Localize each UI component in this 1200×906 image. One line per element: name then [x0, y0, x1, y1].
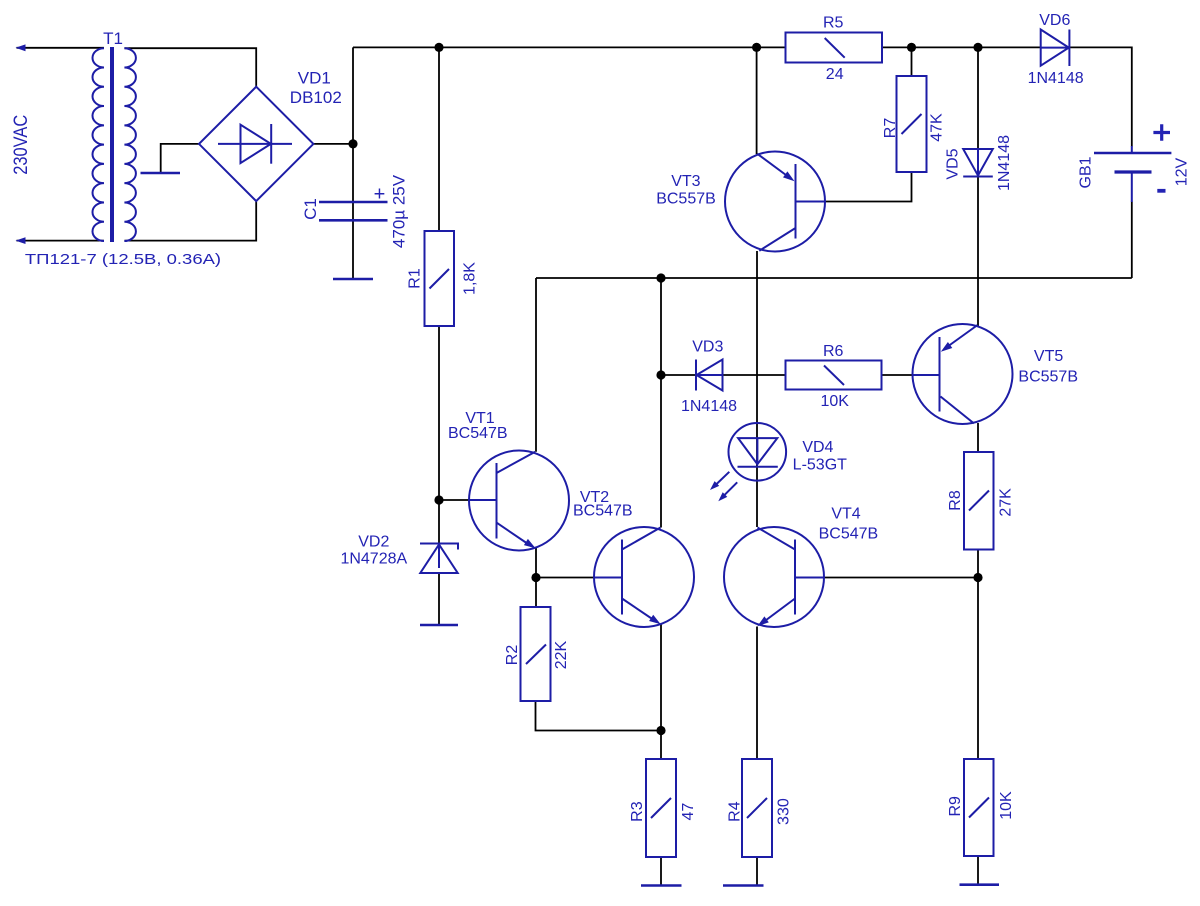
svg-text:BC547B: BC547B: [448, 425, 508, 442]
junction node rail-R7: [907, 43, 916, 52]
svg-text:VD6: VD6: [1039, 12, 1070, 29]
capacitor C1 bottom plate: [319, 219, 388, 222]
AC input arrow bottom: [16, 237, 26, 244]
transistor VT1 emitter arrow: [524, 539, 536, 548]
svg-text:10K: 10K: [998, 791, 1015, 820]
wire VT2 emitter to R3: [660, 624, 662, 759]
transformer T1 primary winding: [92, 48, 104, 241]
svg-text:R1: R1: [407, 268, 424, 289]
svg-text:VD4: VD4: [802, 439, 833, 456]
transistor VT5 emitter arrow: [941, 342, 953, 352]
transistor VT2 collector stroke: [622, 528, 661, 550]
transistor VT4 emitter arrow: [757, 616, 769, 626]
wire bridge AC- to ground: [161, 144, 200, 172]
junction node R8-R9-VT4 base: [973, 573, 982, 582]
LED VD4 light arrow 2: [723, 482, 737, 496]
wire secondary top to bridge top vertex: [124, 48, 256, 87]
ground at C1: [333, 278, 373, 281]
svg-text:GB1: GB1: [1078, 156, 1095, 188]
svg-text:ТП121-7 (12.5В, 0.36А): ТП121-7 (12.5В, 0.36А): [25, 251, 221, 268]
wire minus rail: [536, 277, 1132, 279]
resistor R8: [964, 452, 994, 550]
diode VD6 cathode bar: [1068, 30, 1070, 67]
transistor VT5 collector stroke: [941, 397, 974, 424]
resistor R3 slash: [651, 798, 671, 818]
transistor VT4 circle: [724, 527, 824, 627]
transistor VT2 emitter arrow: [649, 615, 661, 625]
wire VD3 anode to VT5 base: [723, 374, 940, 376]
svg-text:VD3: VD3: [692, 338, 723, 355]
transistor VT2 emitter stroke: [622, 599, 656, 622]
transistor VT4 emitter stroke: [762, 599, 796, 624]
wire rail corner down to C1: [352, 47, 354, 279]
transistor VT3 emitter stroke: [757, 154, 788, 177]
resistor R5 slash: [825, 38, 845, 58]
svg-text:DB102: DB102: [290, 88, 342, 107]
svg-text:1N4728A: 1N4728A: [340, 551, 407, 568]
wire VT4 emitter to R4: [756, 627, 758, 760]
transistor VT2 base bar: [621, 540, 623, 615]
LED VD4 triangle: [738, 438, 777, 464]
bridge VD1 inner diode triangle: [241, 125, 271, 163]
bridge rectifier VD1 diamond: [199, 87, 313, 201]
diode VD5 triangle: [963, 149, 993, 176]
junction node rail-VD5: [973, 43, 982, 52]
svg-text:R4: R4: [726, 801, 743, 822]
junction node VD3: [656, 370, 665, 379]
resistor R7: [897, 76, 927, 172]
transistor VT2 circle: [594, 527, 694, 627]
junction node minus rail / VT2 collector: [656, 273, 665, 282]
svg-text:1N4148: 1N4148: [996, 135, 1013, 191]
transistor VT1 base bar: [496, 463, 498, 539]
svg-text:230VAC: 230VAC: [11, 115, 32, 175]
junction node R2-R3: [656, 726, 665, 735]
wire secondary bottom to bridge bottom vertex: [124, 201, 256, 241]
svg-text:22K: 22K: [553, 640, 570, 669]
wire R9 to ground: [977, 856, 979, 885]
LED VD4 light arrow 1: [715, 472, 730, 486]
bridge VD1 inner diode cathode bar: [270, 124, 272, 164]
svg-text:R9: R9: [947, 796, 964, 817]
svg-text:BC557B: BC557B: [656, 191, 716, 208]
junction node bridge output: [348, 139, 357, 148]
resistor R9 slash: [969, 798, 989, 818]
wire R8 through node to R9: [977, 550, 979, 760]
AC input arrow top: [16, 44, 26, 51]
wire VT1 collector riser: [535, 278, 537, 452]
svg-text:R7: R7: [882, 118, 899, 139]
svg-text:VT5: VT5: [1034, 348, 1063, 365]
transistor VT3 base bar: [795, 164, 797, 239]
svg-text:VT4: VT4: [831, 506, 860, 523]
wire R2 bottom jog to R3 net: [536, 701, 662, 731]
resistor R6: [786, 361, 882, 390]
wire battery minus down to rail: [1131, 202, 1133, 279]
wire VT4 base to R8/R9 node: [795, 577, 978, 579]
junction node VT1 emitter / VT2 base: [531, 573, 540, 582]
svg-text:10K: 10K: [820, 393, 849, 410]
battery GB1 long plate: [1131, 146, 1133, 153]
transistor VT4 base bar: [794, 540, 796, 615]
transistor VT3 emitter arrow: [783, 171, 795, 181]
transistor VT1 emitter stroke: [497, 523, 532, 546]
svg-text:27K: 27K: [997, 488, 1014, 517]
wire VT2 base: [536, 577, 622, 579]
ground at bridge: [141, 172, 181, 175]
resistor R9: [964, 759, 994, 856]
junction node rail-VT3: [752, 43, 761, 52]
svg-text:R8: R8: [947, 490, 964, 511]
wire node to VD3 cathode: [661, 374, 696, 376]
svg-text:VD1: VD1: [298, 68, 331, 87]
resistor R4 slash: [747, 798, 767, 818]
diode VD5 cathode bar: [963, 176, 993, 178]
transistor VT5 circle: [913, 324, 1013, 424]
svg-text:VD2: VD2: [358, 533, 389, 550]
resistor R3: [646, 759, 676, 857]
svg-text:BC547B: BC547B: [573, 503, 633, 520]
wire rail to R7: [911, 47, 913, 76]
battery GB1 plus sign: [1153, 124, 1170, 141]
ground at VD2: [420, 624, 458, 627]
diode VD6 triangle: [1041, 30, 1069, 66]
resistor R6 slash: [824, 366, 844, 386]
resistor R7 slash: [902, 114, 922, 134]
wire R3 to ground: [660, 857, 662, 886]
svg-text:C1: C1: [301, 198, 320, 220]
resistor R2: [521, 607, 551, 701]
ground at R9: [960, 883, 1000, 886]
transformer T1 core: [110, 47, 114, 242]
transistor VT1 circle: [469, 451, 569, 551]
wire VD5 cathode to VT5 emitter: [977, 177, 979, 327]
svg-text:24: 24: [826, 66, 844, 83]
wire primary top lead: [17, 47, 105, 49]
wire VT3 collector through VD4 to VT4 collector: [756, 251, 758, 527]
transistor VT4 collector stroke: [758, 528, 796, 550]
capacitor C1 top plate: [319, 201, 388, 204]
svg-text:R2: R2: [504, 645, 521, 666]
diode VD3 triangle: [697, 360, 723, 391]
wire bridge + output to node: [313, 143, 353, 145]
wire VT1 base: [439, 499, 497, 501]
svg-text:R6: R6: [823, 343, 844, 360]
LED VD4 circle: [729, 423, 787, 481]
junction node VT1 base: [434, 495, 443, 504]
svg-text:VT3: VT3: [671, 173, 700, 190]
LED VD4 light arrow 1 head: [710, 481, 719, 490]
ground at R3: [641, 884, 682, 887]
zener diode VD2 triangle: [420, 545, 457, 574]
svg-text:BC547B: BC547B: [819, 526, 879, 543]
wire rail to VD5: [977, 47, 979, 149]
svg-text:12V: 12V: [1174, 157, 1191, 186]
svg-text:T1: T1: [103, 29, 123, 48]
svg-text:+: +: [374, 184, 386, 206]
svg-text:330: 330: [776, 798, 793, 825]
resistor R8 slash: [969, 491, 989, 511]
resistor R1: [425, 231, 455, 326]
transistor VT5 base bar: [939, 337, 941, 412]
wire top rail: [353, 46, 1041, 48]
transistor VT5 emitter stroke: [947, 325, 978, 347]
wire rail to VT3 emitter: [756, 47, 758, 154]
battery GB1 minus sign: [1157, 189, 1165, 193]
resistor R4: [742, 759, 772, 857]
wire R1 bottom to VD2: [438, 326, 440, 543]
svg-text:R3: R3: [629, 801, 646, 822]
wire VT1 emitter to R2: [535, 548, 537, 607]
wire VD6 cathode to battery plus: [1069, 47, 1131, 146]
transistor VT1 collector stroke: [497, 452, 536, 473]
wire VD2 anode to ground: [438, 573, 440, 625]
resistor R5: [786, 33, 883, 63]
transistor VT3 collector stroke: [759, 228, 795, 251]
zener diode VD2 cathode bar with hook: [420, 544, 458, 550]
wire VT5 collector to R8: [977, 423, 979, 452]
svg-text:BC557B: BC557B: [1018, 368, 1078, 385]
resistor R1 slash: [430, 269, 450, 289]
svg-text:1N4148: 1N4148: [681, 398, 737, 415]
diode VD3 cathode bar: [695, 360, 697, 391]
svg-text:1,8K: 1,8K: [462, 262, 479, 295]
svg-text:47K: 47K: [928, 113, 945, 142]
wire VT2 collector riser: [660, 278, 662, 528]
svg-text:470µ 25V: 470µ 25V: [390, 174, 409, 248]
junction node rail-R1: [434, 43, 443, 52]
transistor VT3 circle: [725, 152, 825, 252]
svg-text:R5: R5: [823, 14, 844, 31]
svg-text:L-53GT: L-53GT: [793, 457, 847, 474]
wire VT3 base to R7 bottom: [796, 172, 912, 202]
battery GB1 short plate: [1115, 170, 1152, 173]
svg-text:1N4148: 1N4148: [1028, 70, 1084, 87]
svg-text:47: 47: [680, 803, 697, 821]
resistor R2 slash: [526, 645, 546, 665]
LED VD4 light arrow 2 head: [718, 492, 727, 501]
svg-text:VD5: VD5: [945, 148, 962, 179]
bridge VD1 inner diode line: [218, 143, 292, 145]
wire rail to R1: [438, 47, 440, 231]
wire primary bottom lead: [17, 240, 105, 242]
transformer T1 secondary winding: [124, 48, 136, 241]
ground at R4: [723, 884, 764, 887]
wire R4 to ground: [756, 857, 758, 886]
LED VD4 anode wire inside: [756, 438, 758, 464]
LED VD4 cathode bar: [738, 466, 778, 468]
